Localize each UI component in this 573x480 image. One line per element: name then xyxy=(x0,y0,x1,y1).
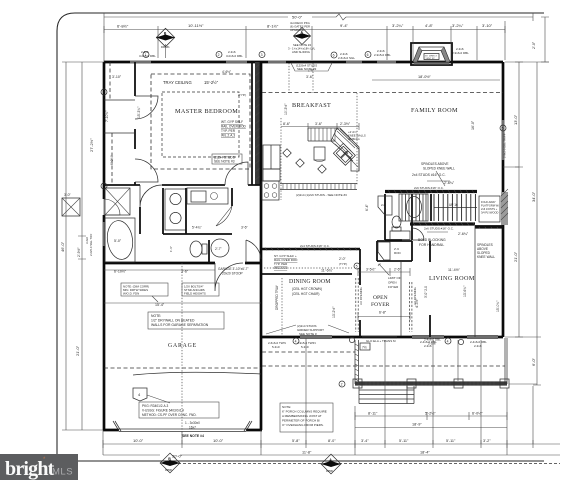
svg-text:7'-10¾": 7'-10¾" xyxy=(105,110,109,122)
svg-text:5'-4¾": 5'-4¾" xyxy=(192,226,202,230)
porch xyxy=(262,338,509,432)
overhang dashed xyxy=(262,365,505,367)
corner island keys xyxy=(333,143,355,165)
upper counter run xyxy=(308,128,359,171)
svg-text:UP 16: UP 16 xyxy=(449,203,458,207)
svg-text:3'-4": 3'-4" xyxy=(361,439,369,443)
island bar counter xyxy=(280,184,357,190)
foyer closet xyxy=(262,226,503,337)
svg-text:15'-4": 15'-4" xyxy=(155,303,165,307)
breakfast bay note xyxy=(289,63,332,93)
svg-text:2-3x6: 2-3x6 xyxy=(428,342,436,346)
svg-text:TRAY CEILING: TRAY CEILING xyxy=(163,80,192,85)
svg-text:5-3x0: 5-3x0 xyxy=(301,345,309,349)
window family room top xyxy=(377,61,396,64)
vanity xyxy=(390,231,410,240)
svg-text:5: 5 xyxy=(502,127,504,131)
svg-text:RAIL OVER ROD: RAIL OVER ROD xyxy=(221,125,247,129)
svg-text:10'-3½": 10'-3½" xyxy=(284,103,288,115)
svg-text:15'-2½": 15'-2½" xyxy=(204,80,219,85)
porch dims xyxy=(355,412,507,420)
room labels xyxy=(168,102,475,349)
foyer walls xyxy=(360,241,430,337)
dotted column line xyxy=(280,118,282,200)
left wall xyxy=(103,62,106,430)
svg-text:VENT FP: VENT FP xyxy=(426,58,436,60)
right wall xyxy=(502,62,505,337)
svg-text:2'-6¾": 2'-6¾" xyxy=(444,181,455,185)
svg-text:W/O.D. FDN: W/O.D. FDN xyxy=(123,292,139,296)
left note boxes xyxy=(121,283,168,296)
svg-text:WT. GYP SHLF: WT. GYP SHLF xyxy=(221,120,243,124)
laundry walls xyxy=(163,188,232,263)
svg-text:2-9x5-0 DBL: 2-9x5-0 DBL xyxy=(374,53,391,57)
svg-text:2-6x6-0 SGL: 2-6x6-0 SGL xyxy=(338,56,355,60)
svg-text:6'-0": 6'-0" xyxy=(531,357,536,366)
svg-text:4'-6½": 4'-6½" xyxy=(222,70,231,74)
sink base xyxy=(314,147,325,160)
window right wall family xyxy=(502,120,505,160)
window breakfast xyxy=(268,61,286,64)
bottom dim lines xyxy=(103,338,560,459)
svg-text:8'-6": 8'-6" xyxy=(283,122,291,126)
svg-text:bright: bright xyxy=(5,458,55,480)
right wall hatch xyxy=(501,192,508,225)
svg-text:2'-6¾": 2'-6¾" xyxy=(458,232,469,236)
svg-text:13'-6¾": 13'-6¾" xyxy=(463,285,467,297)
light diamonds xyxy=(283,149,291,157)
svg-text:5'-11": 5'-11" xyxy=(446,439,456,443)
svg-text:BREAKFAST: BREAKFAST xyxy=(292,102,331,109)
svg-text:SEE NOTE #4: SEE NOTE #4 xyxy=(182,434,204,438)
svg-text:DR5#1: DR5#1 xyxy=(326,470,334,473)
svg-text:3: 3 xyxy=(261,53,263,57)
svg-text:9'-4": 9'-4" xyxy=(340,23,349,28)
tub xyxy=(399,194,428,221)
kitchen xyxy=(262,103,366,200)
treads xyxy=(434,194,475,221)
svg-text:B: B xyxy=(164,32,167,36)
svg-text:OPEN: OPEN xyxy=(373,295,388,301)
svg-text:8'-11": 8'-11" xyxy=(368,412,378,416)
top diamond marker A xyxy=(288,21,316,54)
svg-text:10'-0": 10'-0" xyxy=(213,438,224,443)
svg-text:2'-7": 2'-7" xyxy=(215,247,223,251)
svg-text:(TYP.): (TYP.) xyxy=(339,262,347,266)
garage pkg note xyxy=(139,402,219,418)
svg-text:6'-0½": 6'-0½" xyxy=(472,412,483,416)
steps xyxy=(359,386,414,404)
svg-text:FAMILY ROOM: FAMILY ROOM xyxy=(411,107,458,114)
svg-text:2: 2 xyxy=(218,53,220,57)
closet wall xyxy=(134,62,136,185)
bottom diamond B xyxy=(160,453,180,473)
svg-text:3-0x6-0 DBL: 3-0x6-0 DBL xyxy=(226,54,243,58)
shower xyxy=(105,188,130,215)
svg-text:11'-6¾": 11'-6¾" xyxy=(321,269,334,273)
hall closet pentagon xyxy=(378,196,392,215)
toilet xyxy=(190,241,202,257)
closet door A xyxy=(135,96,158,119)
svg-text:WALLS FOR GARAGE SEPARATION: WALLS FOR GARAGE SEPARATION xyxy=(151,323,209,327)
svg-text:FOLD AWAY: FOLD AWAY xyxy=(481,200,496,204)
bottom diamond A xyxy=(178,454,560,474)
svg-text:LIVING ROOM: LIVING ROOM xyxy=(429,275,475,282)
svg-text:FIELD HEIGHTS: FIELD HEIGHTS xyxy=(184,292,206,296)
corner cabinet hatch xyxy=(331,128,359,171)
svg-text:13'-0": 13'-0" xyxy=(513,114,518,125)
svg-text:3'-6": 3'-6" xyxy=(315,122,323,126)
top dimension line segments xyxy=(104,21,505,62)
svg-text:FOYER: FOYER xyxy=(371,302,390,308)
tray ceiling dashed xyxy=(151,74,250,169)
garage details xyxy=(104,263,261,440)
svg-text:10'-0": 10'-0" xyxy=(133,438,144,443)
svg-text:DROPPED TRAY: DROPPED TRAY xyxy=(275,284,279,310)
svg-text:2x4 STUDS #16" O.C.: 2x4 STUDS #16" O.C. xyxy=(412,173,446,177)
closet door B xyxy=(135,159,158,182)
svg-text:15'-0¾": 15'-0¾" xyxy=(496,300,500,312)
svg-text:6: 6 xyxy=(333,54,335,58)
svg-text:5'-11": 5'-11" xyxy=(399,439,409,443)
svg-text:2: 2 xyxy=(341,383,343,387)
laundry counter xyxy=(187,188,228,204)
svg-text:NOTE:: NOTE: xyxy=(151,314,161,318)
svg-text:4: 4 xyxy=(295,340,297,344)
right edge xyxy=(505,338,507,384)
svg-text:FOYER: FOYER xyxy=(388,285,399,289)
svg-text:10'-11½": 10'-11½" xyxy=(188,23,204,28)
ceiling break dashed line xyxy=(262,93,503,186)
svg-text:2-0: 2-0 xyxy=(381,203,386,207)
svg-text:15'-3¾": 15'-3¾" xyxy=(137,106,141,118)
svg-text:3'-2¼": 3'-2¼" xyxy=(452,23,464,28)
svg-text:6'-4": 6'-4" xyxy=(365,203,369,211)
svg-text:6'-8": 6'-8" xyxy=(379,311,387,315)
svg-text:2'-0": 2'-0" xyxy=(339,257,347,261)
front door opening xyxy=(362,337,397,339)
svg-text:SEE NOTE #3: SEE NOTE #3 xyxy=(214,160,235,164)
svg-text:21'-0": 21'-0" xyxy=(75,345,80,356)
svg-text:W/L.2.A.3: W/L.2.A.3 xyxy=(221,134,235,138)
svg-text:DR5#1: DR5#1 xyxy=(165,469,173,472)
sheet border xyxy=(57,13,544,461)
dining north wall xyxy=(262,273,352,275)
svg-text:3-0 OPENING: 3-0 OPENING xyxy=(359,287,363,305)
svg-text:1/2" DRYWALL ON HEATED: 1/2" DRYWALL ON HEATED xyxy=(151,319,195,323)
svg-text:2x6 STUDS #16" O.C.: 2x6 STUDS #16" O.C. xyxy=(414,186,444,190)
living knee wall xyxy=(474,226,476,337)
svg-text:3'-10": 3'-10" xyxy=(112,75,122,79)
svg-text:7½: 7½ xyxy=(362,346,367,350)
svg-text:(2)2x4 (1)2x6 STUDS - SEE NOTE: (2)2x4 (1)2x6 STUDS - SEE NOTE #3 xyxy=(296,193,347,197)
side stoop xyxy=(62,198,80,216)
master bedroom notes xyxy=(105,70,247,165)
svg-text:20x20 STOOP: 20x20 STOOP xyxy=(222,272,243,276)
svg-text:4: 4 xyxy=(447,340,449,344)
left dim lines xyxy=(60,62,104,430)
svg-text:A MEMBERS/KING JOIST AT: A MEMBERS/KING JOIST AT xyxy=(282,414,322,418)
svg-text:3'-2": 3'-2" xyxy=(483,439,491,443)
svg-text:2-6x5-0 SGL TIFF: 2-6x5-0 SGL TIFF xyxy=(89,233,93,256)
svg-text:V-USSG: FIGURE 6403/0.6.4: V-USSG: FIGURE 6403/0.6.4 xyxy=(142,409,184,413)
stair bottom wall hatched xyxy=(410,222,475,225)
svg-text:30'-0": 30'-0" xyxy=(172,454,183,459)
vanity xyxy=(165,189,186,230)
hall door to garage xyxy=(246,240,261,263)
svg-text:16x7: 16x7 xyxy=(189,426,196,430)
landing platform xyxy=(479,196,500,222)
window front living 1 xyxy=(412,336,444,339)
svg-text:B: B xyxy=(168,457,171,461)
svg-text:18'-4": 18'-4" xyxy=(420,451,430,455)
svg-text:3'-6": 3'-6" xyxy=(241,226,249,230)
svg-text:2: 2 xyxy=(103,91,105,95)
svg-text:ROD: ROD xyxy=(394,251,402,255)
svg-text:2'-6": 2'-6" xyxy=(394,268,402,272)
window front living 2 xyxy=(467,336,498,339)
garage north wall xyxy=(104,262,261,265)
front wall xyxy=(261,336,503,339)
svg-text:3'-10": 3'-10" xyxy=(482,23,493,28)
stair top wall hatched xyxy=(385,190,477,193)
svg-text:50'-0": 50'-0" xyxy=(292,15,303,20)
garage door opening xyxy=(119,429,246,432)
family room details xyxy=(139,47,500,130)
svg-text:LIMIT OF: LIMIT OF xyxy=(388,276,401,280)
interior main walls xyxy=(104,62,261,263)
master bath xyxy=(62,188,261,263)
svg-text:1'-6": 1'-6" xyxy=(169,246,173,252)
svg-text:6'-0¾": 6'-0¾" xyxy=(110,155,114,165)
svg-text:MLS: MLS xyxy=(52,467,73,478)
svg-text:3'-0" 2-0: 3'-0" 2-0 xyxy=(424,286,428,298)
svg-text:PKG: R3401/2.A.3: PKG: R3401/2.A.3 xyxy=(142,404,168,408)
svg-text:SLOPED KNEE WALL: SLOPED KNEE WALL xyxy=(423,167,455,171)
svg-text:(CEIL HGT CROWN): (CEIL HGT CROWN) xyxy=(292,287,322,291)
svg-text:4'-8": 4'-8" xyxy=(425,23,434,28)
marker 4 box xyxy=(133,388,147,401)
svg-text:PLATFORM W/: PLATFORM W/ xyxy=(481,204,499,208)
svg-text:6" PORCH COLUMNS REQUIRE: 6" PORCH COLUMNS REQUIRE xyxy=(282,410,327,414)
hall bath xyxy=(365,194,428,240)
fridge xyxy=(263,145,280,169)
svg-text:W/ BLKG: W/ BLKG xyxy=(348,137,360,141)
svg-text:GARAGE: GARAGE xyxy=(168,343,197,349)
svg-text:2'-9½": 2'-9½" xyxy=(77,247,81,257)
range xyxy=(262,181,279,200)
svg-text:11'-4½": 11'-4½" xyxy=(448,268,461,272)
svg-text:2x4 STUDS #16" O.C.: 2x4 STUDS #16" O.C. xyxy=(300,244,330,248)
stairs xyxy=(385,162,508,259)
svg-text:5'-2½": 5'-2½" xyxy=(425,412,436,416)
svg-text:OPEN: OPEN xyxy=(388,281,397,285)
garage interior dims xyxy=(104,270,261,303)
svg-text:PERIMETER OF PORCH B/: PERIMETER OF PORCH B/ xyxy=(282,419,320,423)
svg-text:5'-8": 5'-8" xyxy=(292,439,300,443)
svg-text:DINING ROOM: DINING ROOM xyxy=(289,279,331,285)
house outer walls xyxy=(103,52,507,432)
svg-text:3'-5½": 3'-5½" xyxy=(366,268,376,272)
window master bedroom 1 xyxy=(130,61,151,64)
svg-text:TYP. PER: TYP. PER xyxy=(221,129,236,133)
window left wall tub xyxy=(103,222,106,246)
dining foyer living details xyxy=(266,254,500,349)
svg-text:O" OVERHANG FROM PIERS.: O" OVERHANG FROM PIERS. xyxy=(282,423,324,427)
svg-text:27'-2½": 27'-2½" xyxy=(89,138,94,152)
dining closet stud wall xyxy=(262,248,360,251)
svg-text:W/L.2.A.3: W/L.2.A.3 xyxy=(274,266,288,270)
svg-text:KNEE WALL: KNEE WALL xyxy=(477,255,495,259)
svg-text:2x6 STUDS #16" O.C.: 2x6 STUDS #16" O.C. xyxy=(424,227,454,231)
porch note box xyxy=(280,403,333,432)
svg-text:5'-0": 5'-0" xyxy=(114,239,122,243)
svg-text:MASTER BEDROOM: MASTER BEDROOM xyxy=(175,108,238,115)
svg-text:21'-0": 21'-0" xyxy=(513,251,518,262)
svg-text:2-9x5-0 DBL TRIPP: 2-9x5-0 DBL TRIPP xyxy=(503,133,507,158)
svg-text:34'-0": 34'-0" xyxy=(531,191,536,202)
svg-text:1: 1 xyxy=(145,53,147,57)
svg-text:1 - 3x30x0: 1 - 3x30x0 xyxy=(185,421,200,425)
svg-text:6'-10½": 6'-10½" xyxy=(114,270,127,274)
window master bedroom 2 xyxy=(226,61,247,64)
window front dining xyxy=(300,336,332,339)
svg-text:AND SLIDING: AND SLIDING xyxy=(292,50,310,54)
fireplace xyxy=(411,43,452,65)
svg-text:NOTE:: NOTE: xyxy=(282,405,291,409)
bottom band hatch xyxy=(355,381,507,385)
svg-text:METHOD: CS-PF OVER CONC. FND.: METHOD: CS-PF OVER CONC. FND. xyxy=(142,413,197,417)
svg-text:5: 5 xyxy=(356,265,358,269)
left edge xyxy=(355,340,359,384)
svg-text:3/4 PLYWOOD: 3/4 PLYWOOD xyxy=(481,211,499,215)
tub platform xyxy=(105,218,135,262)
svg-text:2-9x6-0 DBL: 2-9x6-0 DBL xyxy=(452,51,469,55)
svg-text:GLO ELA + TRANS M: GLO ELA + TRANS M xyxy=(366,339,396,343)
columns xyxy=(353,379,362,388)
svg-text:8'-1½": 8'-1½" xyxy=(267,24,279,29)
closet shelves xyxy=(104,100,135,133)
bath hall door xyxy=(140,185,162,207)
svg-text:6'-8½": 6'-8½" xyxy=(117,24,129,29)
svg-text:46'-0": 46'-0" xyxy=(60,241,65,252)
kitchen dims xyxy=(281,123,359,130)
bath stair divider wall xyxy=(430,194,432,221)
master bedroom door xyxy=(225,162,248,185)
svg-text:A: A xyxy=(329,458,332,462)
window breakfast right xyxy=(346,61,362,64)
svg-text:3: 3 xyxy=(103,185,105,189)
svg-text:6: 6 xyxy=(367,53,369,57)
svg-text:5-3x0: 5-3x0 xyxy=(272,345,280,349)
svg-text:2'-0": 2'-0" xyxy=(532,41,536,49)
svg-text:FOR HANDRAIL: FOR HANDRAIL xyxy=(419,243,444,247)
svg-text:2x6 JOISTS +: 2x6 JOISTS + xyxy=(481,207,498,211)
front porch window labels top xyxy=(424,338,464,346)
svg-text:3'-2¼": 3'-2¼" xyxy=(392,23,404,28)
svg-text:3'-0": 3'-0" xyxy=(64,193,72,197)
svg-text:(TYP.): (TYP.) xyxy=(238,93,246,97)
top wall xyxy=(104,61,503,64)
wall circle markers xyxy=(101,52,506,388)
tub xyxy=(105,219,135,261)
laundry door xyxy=(216,206,232,226)
toilet xyxy=(392,216,401,228)
svg-text:18'-0½": 18'-0½" xyxy=(418,75,431,79)
svg-text:SPINDLES ABOVE: SPINDLES ABOVE xyxy=(421,162,448,166)
svg-text:11'-8": 11'-8" xyxy=(302,451,312,455)
svg-text:2'-3½": 2'-3½" xyxy=(340,122,351,126)
extension lines xyxy=(103,338,533,455)
svg-text:4'-3½": 4'-3½" xyxy=(415,298,419,308)
bright MLS logo xyxy=(0,454,78,480)
water heater xyxy=(211,239,229,257)
svg-text:8'-0": 8'-0" xyxy=(328,439,336,443)
top diamond marker B xyxy=(156,28,175,58)
pantry cabinet xyxy=(263,169,280,181)
svg-text:SEE NOTE #: SEE NOTE # xyxy=(299,332,317,336)
svg-text:3'-6": 3'-6" xyxy=(181,270,189,274)
svg-text:GARAGE 3'-10"x6'-7": GARAGE 3'-10"x6'-7" xyxy=(218,267,249,271)
garage bottom wall xyxy=(103,429,262,432)
svg-text:13'-2½": 13'-2½" xyxy=(332,306,336,318)
svg-text:16'-0": 16'-0" xyxy=(471,120,475,130)
bedroom south wall xyxy=(104,184,261,186)
bedroom/kitchen wall xyxy=(251,62,253,185)
right dim lines xyxy=(503,17,549,385)
garage right wall xyxy=(260,263,263,430)
svg-text:(CEIL HGT CHAIR): (CEIL HGT CHAIR) xyxy=(292,292,319,296)
svg-text:UPGRADE: UPGRADE xyxy=(290,28,304,32)
svg-text:18'-9": 18'-9" xyxy=(412,423,422,427)
bath walls xyxy=(140,188,186,234)
dining closet rod xyxy=(264,267,352,269)
top dimension line overall 50ft xyxy=(104,13,533,21)
svg-text:2-3x6: 2-3x6 xyxy=(474,344,482,348)
